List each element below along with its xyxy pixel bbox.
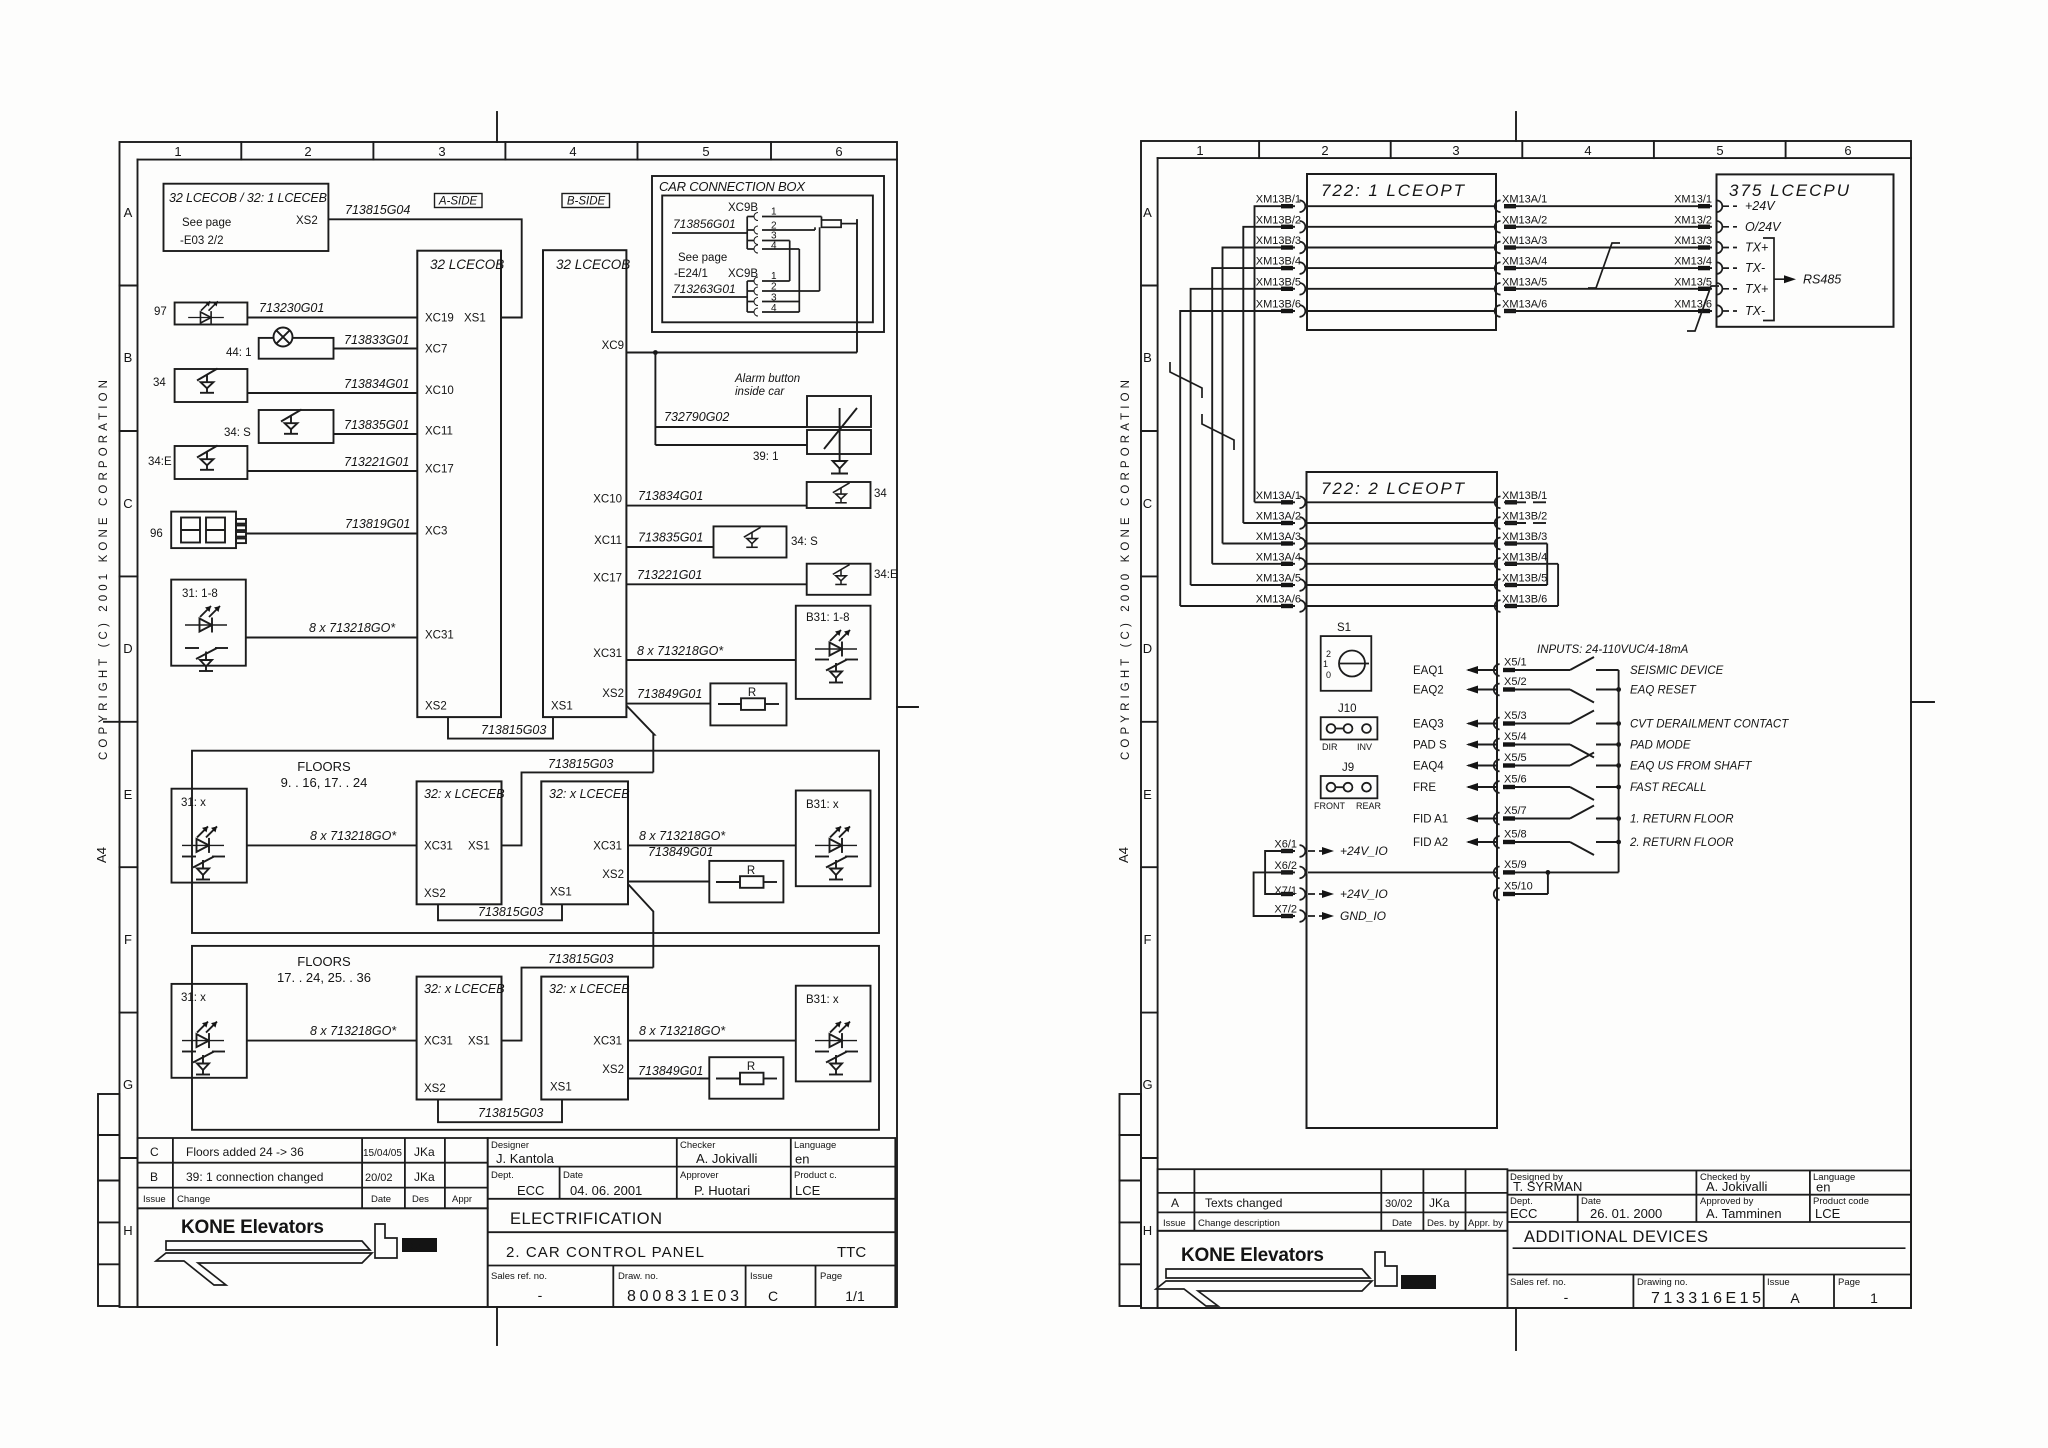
svg-text:34: 34 xyxy=(874,488,887,500)
right page revision table xyxy=(1158,1169,1508,1231)
svg-text:XC11: XC11 xyxy=(425,426,453,438)
svg-text:FID A2: FID A2 xyxy=(1413,837,1448,849)
CPU pin TX- xyxy=(1723,267,1737,269)
svg-text:KONE Elevators: KONE Elevators xyxy=(1181,1245,1324,1266)
svg-text:XM13A/1: XM13A/1 xyxy=(1502,194,1547,206)
svg-text:XS1: XS1 xyxy=(550,887,572,899)
svg-text:9. . 16, 17. . 24: 9. . 16, 17. . 24 xyxy=(281,775,368,790)
svg-text:EAQ4: EAQ4 xyxy=(1413,761,1444,773)
svg-text:713835G01: 713835G01 xyxy=(344,418,409,432)
wire 8 x 713218G0* (g2 right) to B31:x xyxy=(628,1040,796,1042)
svg-text:713263G01: 713263G01 xyxy=(673,282,736,296)
wire 713833G01 to XC7 xyxy=(334,348,418,350)
svg-text:2: 2 xyxy=(1326,649,1331,659)
svg-text:EAQ2: EAQ2 xyxy=(1413,685,1444,697)
svg-text:XC31: XC31 xyxy=(593,841,622,853)
svg-text:JKa: JKa xyxy=(414,1170,435,1184)
svg-text:713230G01: 713230G01 xyxy=(259,301,324,315)
svg-text:713815G03: 713815G03 xyxy=(478,1106,543,1120)
svg-text:COPYRIGHT (C) 2000 KONE CORPOR: COPYRIGHT (C) 2000 KONE CORPORATION xyxy=(1120,380,1132,760)
wire XM13A/2 to XM13/2 xyxy=(1495,221,1723,233)
svg-text:8 x 713218GO*: 8 x 713218GO* xyxy=(309,621,396,635)
svg-text:Sales ref. no.: Sales ref. no. xyxy=(491,1271,547,1282)
svg-text:39: 1: 39: 1 xyxy=(753,451,779,463)
pin XM13B/4 of 722:2 xyxy=(1495,558,1558,570)
pin XM13B/1 of 722:2 xyxy=(1495,496,1546,508)
svg-text:FRONT: FRONT xyxy=(1314,801,1345,811)
svg-text:See page: See page xyxy=(182,217,231,229)
svg-text:J. Kantola: J. Kantola xyxy=(496,1151,555,1166)
svg-text:XM13A/3: XM13A/3 xyxy=(1256,531,1301,543)
cable marker (verticals B3-B4) xyxy=(1202,414,1234,450)
cable marker (verticals B5-B6) xyxy=(1170,362,1202,398)
svg-text:en: en xyxy=(1816,1180,1830,1195)
svg-text:TX+: TX+ xyxy=(1745,282,1768,296)
svg-text:713815G03: 713815G03 xyxy=(548,757,613,771)
svg-text:inside car: inside car xyxy=(735,386,785,398)
right page KONE logo block xyxy=(1158,1231,1508,1308)
svg-text:1/1: 1/1 xyxy=(845,1288,865,1304)
svg-text:EAQ RESET: EAQ RESET xyxy=(1630,685,1697,697)
svg-text:1: 1 xyxy=(174,144,181,159)
CPU pin TX+ xyxy=(1723,247,1737,249)
resistor unit 713849G01 (g2) xyxy=(628,1057,783,1099)
svg-text:EAQ US FROM SHAFT: EAQ US FROM SHAFT xyxy=(1630,761,1752,773)
left page title block xyxy=(488,1138,896,1307)
svg-text:ELECTRIFICATION: ELECTRIFICATION xyxy=(510,1210,662,1228)
7-segment display 96 xyxy=(171,512,246,548)
svg-text:B: B xyxy=(150,1170,158,1184)
svg-text:XM13B/6: XM13B/6 xyxy=(1256,299,1301,311)
pin XM13A/3 of 722:2 xyxy=(1281,538,1305,550)
svg-text:SEISMIC DEVICE: SEISMIC DEVICE xyxy=(1630,665,1724,677)
svg-text:INV: INV xyxy=(1357,742,1372,752)
pin X6/1 of 722:2 xyxy=(1281,845,1305,857)
svg-text:TTC: TTC xyxy=(837,1244,866,1261)
svg-text:X5/5: X5/5 xyxy=(1504,752,1527,764)
svg-text:PAD MODE: PAD MODE xyxy=(1630,740,1691,752)
through wires inside 722:2 xyxy=(1307,502,1498,606)
svg-text:XM13B/3: XM13B/3 xyxy=(1256,235,1301,247)
resistor unit 713849G01 (main) xyxy=(626,683,786,725)
FLOORS group 2 border xyxy=(192,946,879,1130)
svg-text:KONE: KONE xyxy=(1403,1278,1429,1288)
svg-text:XM13A/4: XM13A/4 xyxy=(1502,256,1547,268)
svg-text:Texts changed: Texts changed xyxy=(1205,1196,1282,1210)
svg-text:O/24V: O/24V xyxy=(1745,220,1782,234)
svg-text:32: x LCECEB: 32: x LCECEB xyxy=(424,787,505,801)
svg-text:XM13A/6: XM13A/6 xyxy=(1502,299,1547,311)
CPU pin TX- xyxy=(1723,310,1737,312)
svg-text:E: E xyxy=(124,787,133,802)
svg-text:XS2: XS2 xyxy=(296,215,318,227)
svg-text:XS1: XS1 xyxy=(468,1036,490,1048)
svg-text:Appr: Appr xyxy=(452,1194,472,1205)
svg-text:6: 6 xyxy=(1844,143,1851,158)
svg-text:XM13B/1: XM13B/1 xyxy=(1256,194,1301,206)
svg-text:Draw. no.: Draw. no. xyxy=(618,1271,658,1282)
svg-text:34: S: 34: S xyxy=(224,427,251,439)
wire 8 x 713218G0* (g2 left) xyxy=(247,1040,417,1042)
svg-text:31: x: 31: x xyxy=(181,992,206,1004)
svg-text:Change: Change xyxy=(177,1194,210,1205)
svg-text:XM13A/3: XM13A/3 xyxy=(1502,235,1547,247)
CPU pin TX+ xyxy=(1723,288,1737,290)
svg-text:GND_IO: GND_IO xyxy=(1340,909,1386,923)
svg-text:XC17: XC17 xyxy=(425,464,454,476)
svg-text:1. RETURN FLOOR: 1. RETURN FLOOR xyxy=(1630,814,1734,826)
svg-text:X5/10: X5/10 xyxy=(1504,881,1533,893)
column numbers right page xyxy=(1142,143,1851,1238)
cable 713815G03 XS2(A) to XS1(B) xyxy=(448,717,553,739)
svg-text:8 x 713218GO*: 8 x 713218GO* xyxy=(639,1024,726,1038)
svg-text:EAQ3: EAQ3 xyxy=(1413,719,1444,731)
left page KONE logo block xyxy=(138,1208,488,1307)
svg-text:XM13B/4: XM13B/4 xyxy=(1502,551,1547,563)
svg-text:Date: Date xyxy=(371,1194,391,1205)
input X5/5 EAQ4 xyxy=(1468,753,1619,772)
indicator LED 97 xyxy=(175,301,248,324)
wire 713815G04 from ref box XS2 to A-side XS1 xyxy=(328,219,521,317)
svg-text:Designer: Designer xyxy=(491,1140,529,1151)
link X5/9 to X5/10 xyxy=(1547,872,1549,894)
svg-text:D: D xyxy=(1143,641,1152,656)
svg-text:713819G01: 713819G01 xyxy=(345,517,410,531)
svg-text:Dept.: Dept. xyxy=(491,1170,514,1181)
cable 713815G03 (g1 top link) xyxy=(502,772,654,845)
svg-text:REAR: REAR xyxy=(1356,801,1382,811)
svg-text:XM13A/6: XM13A/6 xyxy=(1256,594,1301,606)
svg-text:XC31: XC31 xyxy=(424,841,453,853)
svg-text:XS2: XS2 xyxy=(424,888,446,900)
wire XM13A/1 to XM13/1 xyxy=(1495,200,1723,212)
lamp 44:1 xyxy=(259,328,334,359)
svg-text:1: 1 xyxy=(1196,143,1203,158)
svg-text:X5/9: X5/9 xyxy=(1504,859,1527,871)
wire XM13A/3 to XM13/3 xyxy=(1495,242,1723,254)
svg-text:X6/2: X6/2 xyxy=(1274,860,1297,872)
svg-text:R: R xyxy=(747,865,755,877)
connector XC9B upper pins and wiring xyxy=(672,212,857,312)
svg-text:A-SIDE: A-SIDE xyxy=(438,196,478,208)
svg-text:FRE: FRE xyxy=(1413,782,1436,794)
switch 34 (left) xyxy=(175,369,248,403)
svg-text:Change description: Change description xyxy=(1198,1218,1280,1229)
svg-text:R: R xyxy=(748,687,756,699)
B-SIDE label xyxy=(562,194,610,208)
FLOORS group 1 border xyxy=(192,751,879,933)
LED group 31:1-8 xyxy=(171,580,246,671)
svg-text:96: 96 xyxy=(150,528,163,540)
input X5/6 FRE xyxy=(1468,781,1619,800)
svg-text:XC9B: XC9B xyxy=(728,202,758,214)
svg-text:XC11: XC11 xyxy=(594,535,622,547)
svg-text:XM13A/2: XM13A/2 xyxy=(1502,214,1547,226)
svg-text:A4: A4 xyxy=(94,847,109,863)
svg-text:X5/2: X5/2 xyxy=(1504,676,1527,688)
svg-text:XC10: XC10 xyxy=(593,494,622,506)
svg-text:A: A xyxy=(124,205,133,220)
svg-text:FLOORS: FLOORS xyxy=(297,954,351,969)
svg-text:XC17: XC17 xyxy=(593,572,622,584)
wire stub to XM13A/5 xyxy=(1191,584,1295,586)
svg-text:713815G03: 713815G03 xyxy=(481,723,546,737)
pin XM13A/5 of 722:2 xyxy=(1281,579,1305,591)
svg-text:ADDITIONAL DEVICES: ADDITIONAL DEVICES xyxy=(1524,1228,1708,1246)
svg-text:Appr. by: Appr. by xyxy=(1468,1218,1503,1229)
svg-text:Issue: Issue xyxy=(1163,1218,1186,1229)
svg-text:1: 1 xyxy=(1323,659,1328,669)
svg-text:XC10: XC10 xyxy=(425,385,454,397)
svg-text:2. RETURN FLOOR: 2. RETURN FLOOR xyxy=(1629,837,1734,849)
svg-text:32 LCECOB / 32: 1 LCECEB: 32 LCECOB / 32: 1 LCECEB xyxy=(169,191,327,205)
wire X6/2 to X7/2 and through to X5/9 xyxy=(1254,872,1295,916)
wire XM13A/5 to XM13/5 xyxy=(1495,283,1723,295)
svg-text:XM13B/6: XM13B/6 xyxy=(1502,594,1547,606)
svg-text:8 x 713218GO*: 8 x 713218GO* xyxy=(639,829,726,843)
svg-text:B: B xyxy=(124,350,133,365)
svg-text:KONE: KONE xyxy=(404,1241,430,1251)
svg-text:31: 1-8: 31: 1-8 xyxy=(182,588,218,600)
svg-text:20/02: 20/02 xyxy=(365,1172,393,1184)
svg-text:XM13A/2: XM13A/2 xyxy=(1256,511,1301,523)
svg-text:XC31: XC31 xyxy=(424,1036,453,1048)
svg-text:713316E15: 713316E15 xyxy=(1651,1290,1761,1307)
riser wire XS2(B g1) down to floors group 2 xyxy=(628,884,653,968)
svg-text:XS1: XS1 xyxy=(468,841,490,853)
svg-text:T. SYRMAN: T. SYRMAN xyxy=(1513,1179,1582,1194)
pin XM13B/5 of 722:2 xyxy=(1495,579,1548,591)
svg-text:B31: x: B31: x xyxy=(806,799,839,811)
svg-text:XM13B/4: XM13B/4 xyxy=(1256,256,1301,268)
svg-text:XM13B/3: XM13B/3 xyxy=(1502,531,1547,543)
pin XM13A/4 of 722:2 xyxy=(1281,558,1305,570)
wire X6/1 to X7/1 xyxy=(1265,851,1295,894)
svg-text:722: 2 LCEOPT: 722: 2 LCEOPT xyxy=(1321,479,1466,498)
wire 713221G01 XC17 to switch 34:E (right) xyxy=(626,564,870,595)
wire stub to XM13A/2 xyxy=(1243,522,1295,524)
column number strip dividers xyxy=(240,142,242,160)
wire stub to XM13A/6 xyxy=(1180,605,1295,607)
svg-text:1: 1 xyxy=(1870,1290,1878,1306)
svg-text:B: B xyxy=(1143,350,1152,365)
cable 713815G03 (g2 bottom link) xyxy=(438,1100,562,1123)
svg-text:713835G01: 713835G01 xyxy=(638,531,703,545)
input X5/7 FID A1 xyxy=(1468,806,1619,825)
svg-text:X5/3: X5/3 xyxy=(1504,710,1527,722)
pin X6/2 of 722:2 xyxy=(1281,867,1305,879)
svg-text:J9: J9 xyxy=(1342,762,1354,774)
svg-text:JKa: JKa xyxy=(414,1145,435,1159)
svg-text:C: C xyxy=(768,1288,778,1304)
board 32:x LCECEB (g2 A) xyxy=(417,977,502,1100)
board 32:x LCECEB (g1 A) xyxy=(417,781,502,904)
svg-text:2: 2 xyxy=(1321,143,1328,158)
svg-text:A: A xyxy=(1143,205,1152,220)
svg-text:A. Jokivalli: A. Jokivalli xyxy=(696,1151,758,1166)
svg-text:713834G01: 713834G01 xyxy=(638,489,703,503)
svg-text:ECC: ECC xyxy=(517,1183,544,1198)
wire 713221G01 to XC17 xyxy=(247,470,417,472)
svg-text:XS2: XS2 xyxy=(602,869,624,881)
switch 34:E (left) xyxy=(175,446,248,480)
svg-text:FID A1: FID A1 xyxy=(1413,814,1448,826)
svg-text:B31: x: B31: x xyxy=(806,994,839,1006)
svg-text:Issue: Issue xyxy=(750,1271,773,1282)
svg-text:C: C xyxy=(1143,496,1152,511)
pin X7/1 of 722:2 xyxy=(1281,888,1305,900)
svg-text:713815G03: 713815G03 xyxy=(548,952,613,966)
svg-text:2: 2 xyxy=(304,144,311,159)
svg-text:26. 01. 2000: 26. 01. 2000 xyxy=(1590,1206,1662,1221)
reference box 32 LCECOB / 32:1 LCECEB xyxy=(164,184,329,251)
svg-text:XS1: XS1 xyxy=(551,701,573,713)
svg-text:X7/1: X7/1 xyxy=(1274,885,1297,897)
wire 713834G01 XC10 to switch 34 (right) xyxy=(626,482,870,508)
CPU board 375 LCECPU xyxy=(1717,174,1894,326)
svg-text:04. 06. 2001: 04. 06. 2001 xyxy=(570,1183,642,1198)
wire stub to XM13A/4 xyxy=(1212,563,1295,565)
svg-text:30/02: 30/02 xyxy=(1385,1198,1413,1210)
svg-text:FAST RECALL: FAST RECALL xyxy=(1630,782,1706,794)
svg-text:J10: J10 xyxy=(1338,703,1357,715)
wire stub to XM13A/3 xyxy=(1223,543,1296,545)
svg-text:XS1: XS1 xyxy=(550,1082,572,1094)
wire stub to XM13A/1 xyxy=(1255,501,1296,503)
row letter ticks xyxy=(120,285,138,287)
svg-text:32 LCECOB: 32 LCECOB xyxy=(556,257,630,272)
svg-text:XM13/3: XM13/3 xyxy=(1674,235,1712,247)
svg-text:COPYRIGHT (C) 2001 KONE CORPOR: COPYRIGHT (C) 2001 KONE CORPORATION xyxy=(98,380,110,760)
svg-text:8 x 713218GO*: 8 x 713218GO* xyxy=(310,1024,397,1038)
svg-text:B-SIDE: B-SIDE xyxy=(567,196,606,208)
svg-text:Page: Page xyxy=(1838,1277,1860,1288)
svg-text:XM13B/5: XM13B/5 xyxy=(1502,573,1547,585)
CPU pin +24V xyxy=(1723,205,1737,207)
svg-text:Floors added 24 -> 36: Floors added 24 -> 36 xyxy=(186,1145,304,1159)
svg-text:TX+: TX+ xyxy=(1745,241,1768,255)
pin X7/2 of 722:2 xyxy=(1281,910,1305,922)
column numbers left page xyxy=(123,144,843,1238)
wire XM13B/4 to XM13A/4 xyxy=(1212,262,1305,564)
A-side connector board 32 LCECOB xyxy=(417,251,501,717)
cable marker (rows 5-6) xyxy=(1687,286,1719,331)
pin X5/9 common xyxy=(1494,867,1619,879)
svg-text:+24V_IO: +24V_IO xyxy=(1340,844,1388,858)
svg-text:XC31: XC31 xyxy=(593,1036,622,1048)
svg-text:X5/7: X5/7 xyxy=(1504,805,1527,817)
wire XC9 to car connection box xyxy=(626,219,857,355)
svg-text:XM13/5: XM13/5 xyxy=(1674,276,1712,288)
svg-text:XC9B: XC9B xyxy=(728,268,758,280)
pin X5/10 common xyxy=(1494,888,1548,900)
wire 8 x 713218G0* to XC31 xyxy=(246,637,417,639)
svg-text:32: x LCECEB: 32: x LCECEB xyxy=(549,982,630,996)
svg-text:XM13A/5: XM13A/5 xyxy=(1502,276,1547,288)
right page outer border frame xyxy=(1141,141,1911,1308)
svg-text:+24V: +24V xyxy=(1745,199,1776,213)
svg-text:800831E03: 800831E03 xyxy=(627,1288,739,1305)
left page outer border frame xyxy=(120,142,898,1307)
wire 8 x 713218G0* (g1 left) xyxy=(247,844,417,846)
input X5/1 EAQ1 xyxy=(1468,657,1619,676)
LED group B31:1-8 xyxy=(626,606,870,699)
svg-text:INPUTS: 24-110VUC/4-18mA: INPUTS: 24-110VUC/4-18mA xyxy=(1537,644,1689,656)
svg-text:3: 3 xyxy=(1452,143,1459,158)
right page title block xyxy=(1507,1171,1911,1309)
board 722:2 LCEOPT xyxy=(1307,472,1498,1128)
svg-text:+24V_IO: +24V_IO xyxy=(1340,887,1388,901)
svg-text:32: x LCECEB: 32: x LCECEB xyxy=(424,982,505,996)
pin XM13A/2 of 722:2 xyxy=(1281,517,1305,529)
svg-text:XM13B/1: XM13B/1 xyxy=(1502,490,1547,502)
wire 8 x 713218G0* (g1 right) to B31:x xyxy=(628,844,796,846)
svg-text:XS1: XS1 xyxy=(464,313,486,325)
CAR CONNECTION BOX xyxy=(652,176,884,332)
svg-text:KONE Elevators: KONE Elevators xyxy=(181,1217,324,1238)
LED group 31:x (g1) xyxy=(172,789,247,883)
svg-text:Date: Date xyxy=(563,1170,583,1181)
svg-text:XM13B/2: XM13B/2 xyxy=(1256,214,1301,226)
pin XM13A/6 of 722:2 xyxy=(1281,600,1305,612)
svg-text:713849G01: 713849G01 xyxy=(638,1064,703,1078)
pin XM13B/2 of 722:2 xyxy=(1495,517,1546,529)
svg-text:713849G01: 713849G01 xyxy=(648,845,713,859)
svg-text:8 x 713218GO*: 8 x 713218GO* xyxy=(310,829,397,843)
pin XM13B/3 of 722:2 xyxy=(1495,538,1548,550)
svg-text:A4: A4 xyxy=(1116,847,1131,863)
right page inner margin lines xyxy=(1157,158,1159,1308)
svg-text:Sales ref. no.: Sales ref. no. xyxy=(1510,1277,1566,1288)
input X5/3 EAQ3 xyxy=(1468,711,1619,730)
svg-text:X5/6: X5/6 xyxy=(1504,774,1527,786)
svg-text:S1: S1 xyxy=(1337,622,1351,634)
svg-text:3: 3 xyxy=(438,144,445,159)
svg-text:15/04/05: 15/04/05 xyxy=(363,1148,402,1159)
svg-text:FLOORS: FLOORS xyxy=(297,759,351,774)
svg-text:F: F xyxy=(1144,932,1152,947)
input X5/4 PAD S xyxy=(1468,739,1619,758)
LED group B31:x (g1) xyxy=(796,791,871,887)
LED group 31:x (g2) xyxy=(172,984,247,1078)
svg-text:4: 4 xyxy=(1584,143,1591,158)
svg-text:R: R xyxy=(747,1061,755,1073)
svg-text:0: 0 xyxy=(1326,670,1331,680)
svg-text:X5/8: X5/8 xyxy=(1504,829,1527,841)
wire XM13B/1 to XM13A/1 xyxy=(1255,200,1306,502)
svg-text:Des. by: Des. by xyxy=(1427,1218,1459,1229)
svg-text:97: 97 xyxy=(154,306,167,318)
svg-text:713221G01: 713221G01 xyxy=(637,568,702,582)
svg-text:XM13B/2: XM13B/2 xyxy=(1502,511,1547,523)
svg-text:713856G01: 713856G01 xyxy=(673,217,736,231)
board 32:x LCECEB (g1 B) xyxy=(541,781,628,904)
common return bus xyxy=(1618,670,1620,872)
svg-text:Issue: Issue xyxy=(143,1194,166,1205)
wire XM13A/4 to XM13/4 xyxy=(1495,262,1723,274)
svg-text:Checker: Checker xyxy=(680,1140,715,1151)
svg-text:XS2: XS2 xyxy=(425,701,447,713)
wire XM13B/3 to XM13A/3 xyxy=(1223,242,1306,544)
wire 713819G01 to XC3 xyxy=(246,533,417,535)
svg-text:X5/1: X5/1 xyxy=(1504,657,1527,669)
wire 713835G01 to XC11 xyxy=(334,433,418,435)
svg-text:32 LCECOB: 32 LCECOB xyxy=(430,257,504,272)
svg-text:B31: 1-8: B31: 1-8 xyxy=(806,612,849,624)
left page inner margin lines xyxy=(137,160,139,1307)
svg-text:32: x LCECEB: 32: x LCECEB xyxy=(549,787,630,801)
left page revision table xyxy=(138,1138,488,1208)
